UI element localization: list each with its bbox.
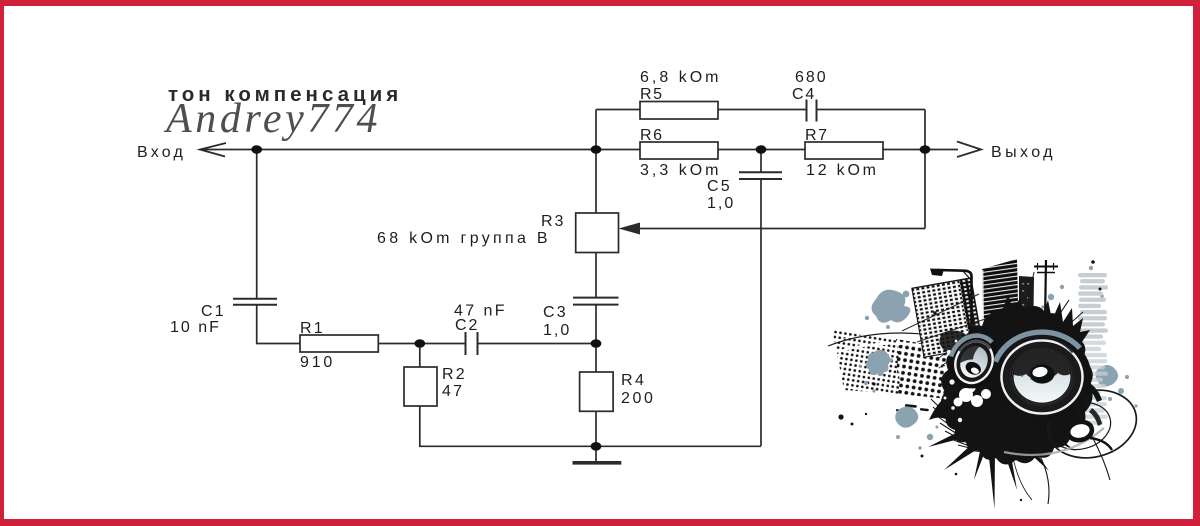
svg-text:C2: C2 (455, 317, 479, 334)
splatter spikes (928, 415, 1082, 509)
wire (200, 149, 596, 151)
building dark striped (982, 259, 1019, 348)
capacitor C1 (233, 298, 277, 300)
svg-text:Andrey774: Andrey774 (163, 96, 381, 142)
svg-text:1,0: 1,0 (543, 322, 571, 339)
output arrow (957, 142, 981, 158)
svg-text:6,8 kOm: 6,8 kOm (640, 69, 721, 86)
svg-text:R5: R5 (640, 86, 664, 103)
wire (595, 305, 597, 344)
sketchy diagonal strokes (902, 272, 1034, 342)
node junction C2/C3/R4 (591, 339, 602, 348)
street lamp (937, 270, 972, 347)
svg-text:R1: R1 (300, 320, 325, 337)
ink dashes below field (896, 404, 929, 412)
splatter top right jagged crown (1040, 300, 1090, 342)
svg-text:R2: R2 (442, 366, 467, 383)
capacitor C5 (739, 171, 782, 173)
building 3 dark tower (1019, 276, 1034, 345)
svg-text:R7: R7 (805, 127, 829, 144)
svg-text:C1: C1 (201, 303, 226, 320)
ground (595, 446, 597, 461)
svg-text:C3: C3 (543, 304, 568, 321)
wire (419, 343, 466, 345)
fan lines (931, 399, 985, 452)
resistor R7 (805, 142, 883, 159)
splatter arm left (929, 390, 960, 423)
svg-text:200: 200 (621, 390, 656, 407)
white cloud puffs (954, 384, 992, 408)
svg-text:Выход: Выход (991, 144, 1056, 161)
node junction ground bus (591, 442, 602, 451)
wire (378, 343, 419, 345)
center cap (1030, 364, 1055, 383)
node junction output (920, 145, 931, 154)
small ring speaker side (1066, 420, 1093, 443)
wire (595, 411, 597, 446)
wire (420, 406, 761, 446)
wire (817, 109, 926, 111)
svg-text:R3: R3 (541, 213, 565, 230)
black specks (838, 260, 1101, 501)
svg-text:R4: R4 (621, 372, 646, 389)
wire (595, 110, 597, 150)
black splatter mass (941, 304, 1093, 464)
capacitor C3 (573, 297, 619, 299)
resistor R6 (640, 142, 718, 159)
splatter lobe under building (939, 330, 971, 354)
wire (595, 253, 597, 298)
wire R3 wiper (638, 228, 925, 230)
small speaker (941, 328, 1006, 397)
svg-text:12 kOm: 12 kOm (806, 162, 879, 179)
node junction R1/R2/C2 (414, 339, 425, 348)
wire (925, 149, 958, 151)
building left with windows (912, 278, 983, 357)
wire (256, 150, 258, 299)
blue splatters (859, 266, 1138, 450)
wire (760, 150, 762, 173)
resistor R1 (300, 335, 378, 352)
R3 wiper arrowhead (619, 223, 641, 235)
wire (718, 109, 806, 111)
wire (595, 150, 597, 214)
wire (419, 344, 421, 368)
utility pole (1045, 260, 1046, 322)
swirl rings (1040, 381, 1143, 467)
svg-text:3,3 kOm: 3,3 kOm (640, 162, 721, 179)
svg-text:C5: C5 (707, 178, 732, 195)
black streaks right of speaker (1085, 382, 1102, 402)
wire (478, 343, 597, 345)
node junction input (251, 145, 262, 154)
wire (924, 110, 926, 150)
resistor R4 (580, 372, 614, 411)
svg-text:68 kOm группа В: 68 kOm группа В (377, 230, 551, 247)
potentiometer R3 (576, 213, 619, 253)
capacitor C2 (465, 332, 467, 355)
capacitor C4 (806, 100, 808, 122)
wire (596, 149, 640, 151)
wire (883, 149, 925, 151)
wire (257, 305, 300, 344)
svg-text:47: 47 (442, 383, 464, 400)
resistor R2 (404, 367, 437, 406)
halftone dot field (832, 328, 900, 394)
thin whisker lines (1014, 300, 1083, 504)
node junction C5 (756, 145, 767, 154)
cone dark top (1008, 346, 1076, 378)
svg-text:910: 910 (300, 354, 335, 371)
svg-text:C4: C4 (792, 86, 816, 103)
svg-text:1,0: 1,0 (707, 195, 735, 212)
wire (760, 179, 762, 446)
svg-text:680: 680 (795, 69, 828, 86)
input arrow (200, 143, 226, 157)
big speaker (993, 332, 1092, 422)
swoosh arc over halftone (831, 334, 945, 343)
svg-text:10 nF: 10 nF (170, 319, 221, 336)
wire (595, 344, 597, 373)
white speckles in mass (942, 330, 968, 422)
equalizer bars (1078, 273, 1108, 425)
svg-text:R6: R6 (640, 127, 664, 144)
node junction R5/R6 (591, 145, 602, 154)
svg-text:Вход: Вход (137, 144, 186, 161)
wire (924, 150, 926, 229)
wire (718, 149, 805, 151)
wire (596, 109, 640, 111)
resistor R5 (640, 102, 718, 120)
